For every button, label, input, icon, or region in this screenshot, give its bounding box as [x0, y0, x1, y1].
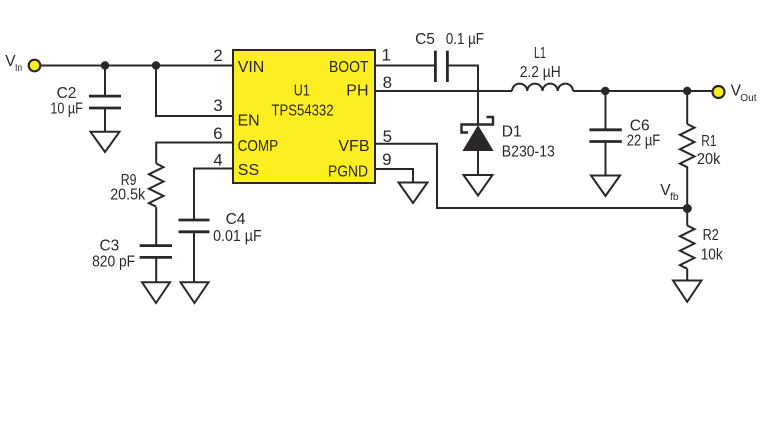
wire main input V_In to VIN pin [41, 65, 233, 67]
node dot (PH/C6) [601, 87, 609, 95]
wire C4 to ground [193, 232, 195, 283]
ground (PGND) [399, 183, 428, 204]
wire R1 top [686, 91, 688, 124]
capacitor C2 [89, 96, 121, 108]
wire SS branch [194, 169, 233, 221]
node dot (VIN/EN) [152, 61, 160, 69]
inductor L1 [512, 84, 573, 91]
ground (C4) [181, 282, 209, 303]
wire VFB feedback [375, 144, 687, 208]
svg-text:5: 5 [383, 127, 392, 146]
wire PGND to ground [375, 169, 413, 183]
svg-text:In: In [15, 63, 22, 74]
svg-text:1: 1 [381, 46, 390, 65]
wire D1 anode to ground [477, 151, 479, 177]
wire R2 top [686, 208, 688, 226]
terminal V_Out [713, 86, 725, 98]
svg-text:D1: D1 [502, 124, 522, 141]
wire EN branch [156, 66, 233, 117]
node dot (VIN/C2) [101, 61, 109, 69]
svg-text:L1: L1 [534, 45, 546, 62]
svg-text:0.01 µF: 0.01 µF [213, 228, 262, 245]
svg-text:U1: U1 [294, 82, 310, 99]
diode D1 cathode (schottky bar) [462, 117, 494, 133]
wire PH to L1 [375, 90, 512, 92]
wire R1 bottom [686, 167, 688, 209]
svg-text:8: 8 [383, 73, 392, 92]
wire COMP branch [156, 143, 233, 164]
svg-text:VIN: VIN [238, 59, 265, 76]
svg-text:Out: Out [740, 93, 756, 104]
svg-text:22 µF: 22 µF [627, 132, 661, 149]
svg-text:B230-13: B230-13 [502, 143, 555, 160]
wire BOOT to C5 [375, 65, 435, 67]
wire C2 bottom [104, 108, 106, 133]
ground (C2) [91, 132, 120, 152]
svg-text:BOOT: BOOT [329, 59, 369, 76]
svg-text:0.1 µF: 0.1 µF [446, 31, 484, 48]
svg-text:9: 9 [382, 150, 391, 169]
ground (C6) [591, 176, 620, 197]
ground (D1) [464, 175, 493, 196]
capacitor C5 [435, 51, 447, 82]
node dot (PH/R1) [683, 87, 691, 95]
wire C6 top [605, 91, 607, 130]
capacitor C6 [589, 130, 621, 142]
svg-text:TPS54332: TPS54332 [272, 102, 334, 119]
svg-text:C5: C5 [415, 31, 435, 48]
wire C5 to D1 cathode [447, 66, 478, 125]
ground (C3) [142, 282, 170, 303]
svg-text:20.5k: 20.5k [110, 186, 145, 203]
wire C2 top [104, 66, 106, 97]
capacitor C3 [140, 246, 172, 258]
svg-text:2: 2 [213, 46, 222, 65]
wire C3 to ground [155, 257, 157, 282]
resistor R2 [680, 226, 695, 269]
resistor R1 [680, 124, 695, 167]
node dot (Vfb) [683, 204, 692, 213]
svg-text:10k: 10k [701, 247, 723, 264]
svg-text:C4: C4 [226, 211, 246, 228]
svg-text:2.2 µH: 2.2 µH [520, 64, 561, 81]
svg-text:fb: fb [670, 192, 679, 203]
terminal V_In [29, 60, 41, 72]
ground (R2) [673, 281, 702, 302]
wire C6 to ground [605, 142, 607, 176]
svg-text:10 µF: 10 µF [50, 100, 83, 117]
svg-text:PGND: PGND [328, 163, 368, 180]
svg-text:20k: 20k [697, 151, 721, 168]
svg-text:VFB: VFB [338, 138, 369, 155]
wire R2 to ground [686, 269, 688, 281]
wire L1 to V_Out [573, 90, 712, 92]
svg-text:SS: SS [238, 162, 259, 179]
svg-text:4: 4 [213, 151, 222, 170]
IC U1 TPS54332 [233, 50, 375, 183]
svg-text:EN: EN [238, 113, 260, 130]
wire R9 to C3 [155, 207, 157, 245]
svg-text:820 pF: 820 pF [92, 253, 135, 270]
capacitor C4 [179, 220, 210, 232]
svg-text:6: 6 [213, 124, 222, 143]
svg-text:R2: R2 [703, 227, 719, 244]
svg-text:C3: C3 [99, 238, 119, 255]
svg-text:3: 3 [213, 96, 222, 115]
svg-text:COMP: COMP [238, 138, 279, 155]
resistor R9 [149, 164, 164, 207]
svg-text:R1: R1 [701, 133, 716, 150]
diode D1 anode triangle [463, 126, 492, 151]
svg-text:PH: PH [346, 83, 368, 100]
